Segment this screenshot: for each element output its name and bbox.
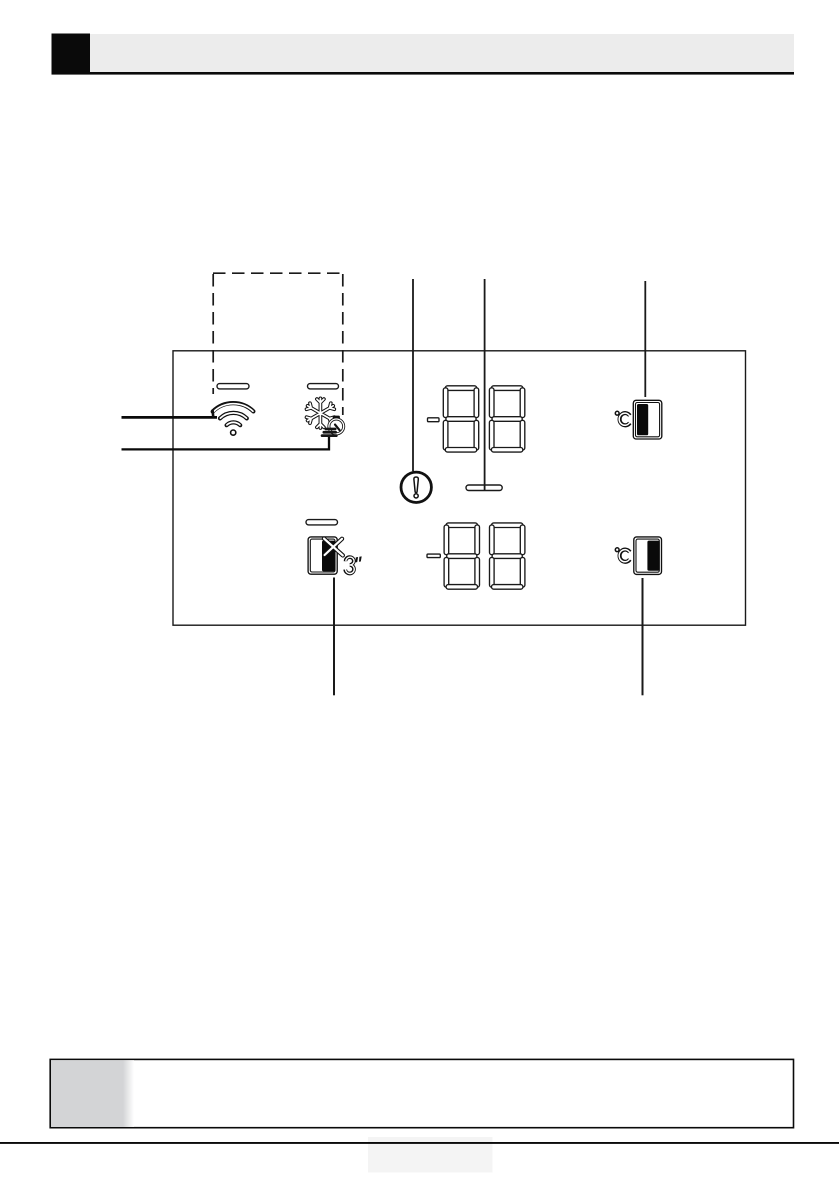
callout line from lower temperature indicator (vertical bottom): [642, 578, 644, 695]
header black square: [52, 34, 91, 75]
footnote box: [50, 1059, 793, 1127]
callout line to warning icon (vertical): [412, 279, 414, 471]
segment pill above keylock icon: [306, 520, 338, 525]
control panel outline: [173, 351, 746, 625]
footer rule: [0, 1142, 839, 1144]
upper display digit 2: [489, 386, 524, 452]
keylock icon frame: [308, 537, 337, 574]
upper temperature indicator frame: [633, 400, 662, 439]
segment pill above quick-freeze icon: [308, 384, 339, 389]
dashed highlight box right edge: [342, 274, 344, 415]
alarm-off segment pill under upper display: [466, 485, 502, 491]
header chapter band: [90, 34, 794, 72]
keylock cross mark: [324, 539, 343, 556]
dashed highlight box left edge: [212, 274, 214, 394]
stopwatch button: [333, 416, 340, 419]
stopwatch body: [329, 419, 344, 434]
footnote gray marker: [51, 1060, 123, 1127]
lower display digit 1: [444, 523, 479, 589]
dashed highlight box top edge: [213, 272, 343, 274]
quick-freeze icon (snowflake with stopwatch): [307, 398, 344, 437]
upper temperature indicator: degree C label: [615, 411, 630, 425]
upper display digit 1: [443, 386, 478, 452]
callout line to alarm-off segment (vertical): [484, 279, 486, 490]
lower temperature indicator filled bar (right half): [647, 541, 659, 571]
keylock icon filled bar (right half): [322, 541, 336, 572]
lower temperature indicator frame: [634, 537, 662, 575]
callout line to quick-freeze icon (L-shape): [122, 437, 330, 449]
stopwatch hand: [335, 425, 340, 431]
speed lines: [325, 428, 337, 431]
lower display minus sign: [427, 554, 440, 558]
callout line to wifi icon (horizontal): [122, 416, 218, 419]
footer page-number placeholder: [368, 1137, 493, 1173]
upper temperature indicator filled bar (left half): [637, 404, 648, 435]
keylock 3 seconds label: [345, 557, 354, 573]
upper display minus sign: [428, 418, 440, 422]
header underline: [52, 72, 795, 75]
callout line to upper temperature indicator (vertical): [644, 281, 646, 397]
warning icon (exclamation circle): [401, 472, 431, 502]
callout line from keylock icon (vertical bottom): [333, 578, 335, 696]
segment pill above wifi icon: [217, 384, 249, 389]
lower display digit 2: [490, 523, 525, 589]
wifi icon: [213, 403, 254, 435]
lower temperature indicator: degree C label: [615, 548, 630, 562]
